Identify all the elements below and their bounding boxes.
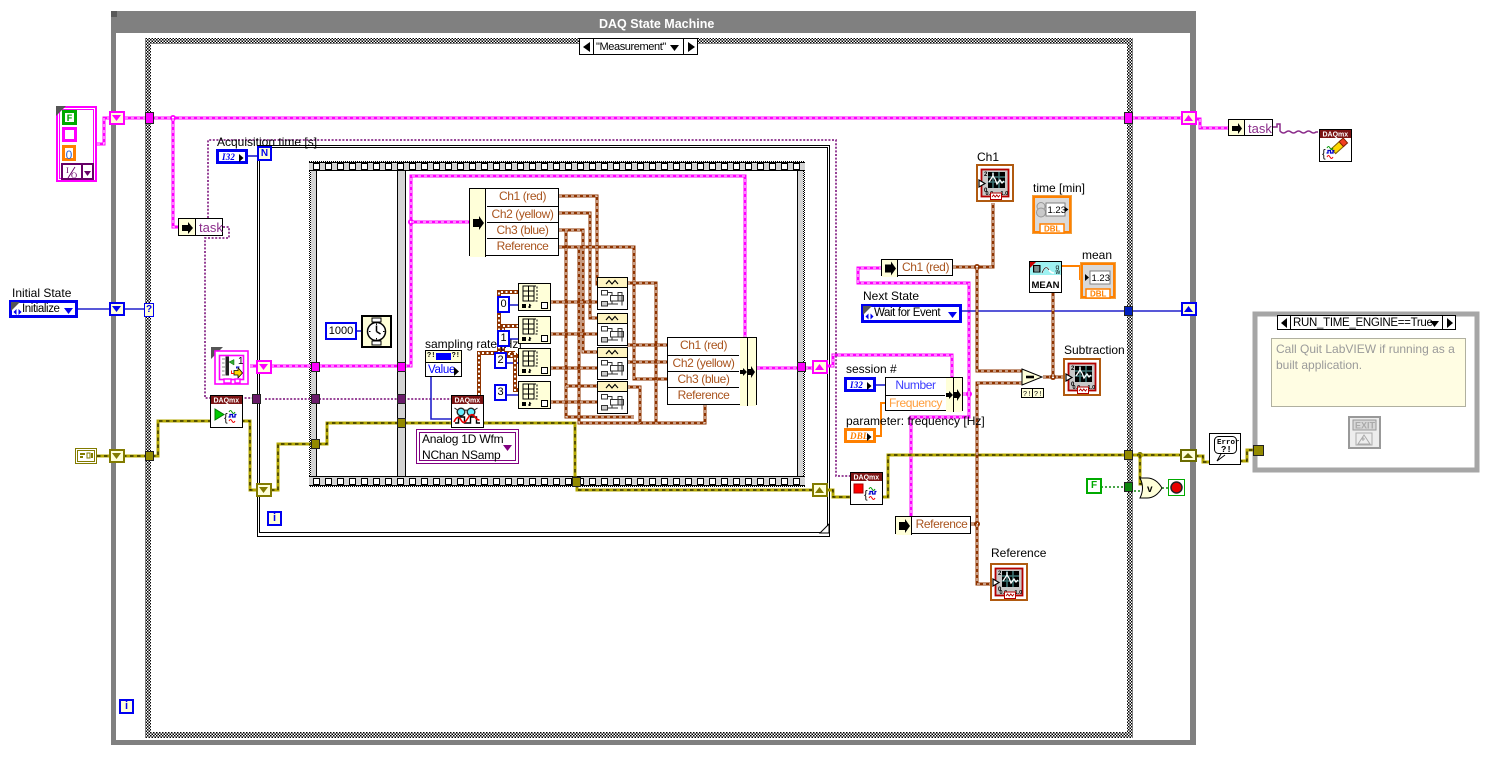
DBL control parameter frequency [844, 428, 876, 443]
svg-text:DAQmx: DAQmx [455, 398, 481, 405]
wire index3 out [550, 367, 599, 370]
unbundle measurement cluster [469, 188, 559, 256]
wire pink to task unbundle outside [1194, 119, 1228, 128]
numeric constant 1 [497, 330, 510, 347]
wire olive below sequence [577, 484, 812, 490]
tunnel pink right [1124, 112, 1133, 124]
wire wdt3 out to bundle row2 [627, 361, 667, 364]
svg-text:1.23: 1.23 [1048, 205, 1067, 216]
wire 2 to index3 [507, 362, 518, 364]
tunnel purple seq-left [311, 394, 320, 404]
wire I32 to N [248, 155, 257, 157]
enum constant Initialize [9, 300, 78, 318]
wire olive read to seq bottom [481, 423, 575, 479]
svg-text:?!: ?! [1221, 445, 1232, 455]
DAQmx Start Task [210, 395, 243, 428]
tunnel pink divider [397, 362, 406, 372]
wire 0 to index1 [510, 304, 518, 306]
for shift register pink right [812, 360, 828, 374]
wire olive to DAQmx start [152, 421, 214, 456]
wire pink case to while right [1132, 117, 1183, 120]
svg-text:?!: ?! [1034, 391, 1042, 399]
unbundle Ch1 red [881, 259, 953, 276]
simple error handler [1209, 433, 1241, 465]
wire task riser to DAQmx stop [208, 140, 853, 476]
flat sequence structure border [309, 161, 805, 487]
wire pink session loop down [911, 394, 969, 517]
svg-text:DAQmx: DAQmx [1323, 132, 1349, 139]
flat sequence frame divider [397, 171, 406, 476]
svg-text:1: 1 [238, 356, 244, 367]
wire property value to read [431, 377, 452, 419]
wire pink bundle out [757, 367, 813, 370]
label sampling rate [425, 338, 522, 351]
wire reference to graph [977, 524, 990, 584]
wire olive for to sequence [271, 444, 313, 490]
wire subVI to for-loop shift register [250, 365, 259, 368]
wire mean icon to indicator [1061, 266, 1084, 279]
junction pink top [170, 115, 176, 121]
shift register right blue [1181, 302, 1197, 316]
label Subtraction [1064, 344, 1125, 357]
junction pink unbundle feed [408, 219, 414, 225]
svg-text:DAQmx: DAQmx [214, 398, 240, 405]
for loop count terminal N [257, 146, 272, 161]
conditional disable selector label [1277, 315, 1456, 330]
numeric constant 2 [494, 352, 507, 369]
svg-text:1.23: 1.23 [1092, 273, 1111, 284]
wire or gate to stop terminal [1162, 487, 1169, 489]
wire next state to case border [962, 310, 1126, 312]
boolean constant F [1086, 478, 1102, 494]
wire unbundle row3 [559, 230, 599, 352]
wire olive to error handler [1195, 456, 1211, 462]
wire array to index4 [515, 353, 518, 390]
wire pink session loop up [858, 268, 969, 394]
wire 1 to index2 [510, 338, 518, 340]
wire subtract out [1043, 376, 1063, 379]
wire array to index2 [503, 326, 518, 353]
label session [846, 363, 897, 376]
waveform graph Ch1 [976, 164, 1014, 202]
wire reference to subtract [977, 383, 1022, 524]
junction brown reference [974, 521, 980, 527]
wire task behind start to for loop [241, 397, 259, 399]
label parameter frequency [846, 415, 985, 428]
MEAN vi [1029, 261, 1062, 293]
wire olive drop to or gate [1140, 455, 1143, 484]
wire session to bundle [876, 384, 885, 386]
wire pink to unbundle [411, 221, 469, 224]
label Acquisition time [217, 136, 317, 149]
svg-text:{: { [864, 489, 868, 501]
wire array to index1 [499, 292, 518, 353]
numeric indicator time min [1032, 195, 1072, 234]
get waveform components 2 [597, 313, 628, 346]
tunnel olive right [1124, 450, 1133, 460]
Wait ms function [361, 315, 392, 348]
wire ch1 to subtract [977, 267, 1022, 371]
wire ch1 unbundle to graph [953, 203, 993, 267]
wire read out riser [479, 353, 515, 395]
label Reference graph [991, 547, 1046, 560]
flat sequence film perforations [314, 164, 320, 170]
wire unbundle row4 [559, 247, 667, 379]
case selector label [579, 38, 698, 55]
svg-text:DAQmx: DAQmx [854, 475, 880, 482]
wire wdt4 feed [566, 230, 634, 417]
while loop iteration terminal i [119, 699, 134, 714]
waveform graph Reference [990, 563, 1028, 601]
svg-text:v: v [1147, 484, 1153, 495]
conditional disable structure RUN_TIME_ENGINE [1255, 314, 1477, 470]
wire wdt4 in stub [566, 385, 599, 388]
comment box [1271, 338, 1466, 407]
tunnel olive divider [397, 418, 406, 428]
wire green to or gate [1130, 490, 1143, 492]
wire task to DAQmx clear [1273, 124, 1318, 133]
label Ch1 [977, 151, 999, 164]
junction pink session bundle out [966, 391, 972, 397]
wire pink drop to task unbundle [173, 118, 178, 227]
label mean [1082, 249, 1112, 262]
wire olive case to while tunnel [1130, 454, 1182, 457]
case selector terminal [144, 303, 154, 317]
tunnel pink seq-left [311, 362, 320, 372]
loop tunnel right olive [1180, 449, 1197, 462]
shift register right pink [1181, 111, 1197, 125]
for loop iteration terminal i [267, 511, 282, 526]
junction brown ch1 [974, 264, 980, 270]
wire F to case border [1101, 486, 1126, 488]
wire index4 out [550, 401, 599, 404]
label Next State [863, 290, 919, 303]
svg-text:?!: ?! [1023, 391, 1031, 399]
numeric constant 3 [494, 384, 507, 401]
bundle display cluster [667, 337, 757, 405]
tunnel purple for-left [252, 394, 261, 404]
wire wdt1 out [627, 283, 656, 423]
tunnel purple divider [397, 394, 406, 404]
index array 2 [518, 316, 551, 344]
bundle by name session [885, 377, 963, 411]
wire reference unbundle out [953, 523, 977, 526]
waveform graph Subtraction [1063, 358, 1101, 396]
I32 control Acquisition time [216, 149, 248, 164]
wire blue case to while border [1131, 310, 1183, 312]
for loop border [258, 146, 830, 537]
wire wdt2 out to bundle row1 [627, 344, 667, 347]
index array 1 [518, 283, 551, 311]
subtract function [1021, 368, 1045, 400]
wire wdt4 out [627, 387, 640, 423]
numeric indicator mean [1080, 262, 1116, 299]
index array 3 [518, 348, 551, 376]
wire olive error handler to structure [1239, 450, 1256, 461]
tunnel olive seq-left [311, 439, 320, 449]
junction brown subtract [1050, 374, 1056, 380]
wire unbundle row1 [559, 196, 599, 284]
EXIT vi icon (disabled) [1348, 416, 1381, 449]
wire 3 to index4 [507, 394, 518, 396]
label Initial State [12, 287, 71, 300]
wire blue to case selector [122, 308, 146, 310]
wire pink for-loop out [825, 355, 952, 378]
polymorphic selector Analog 1D Wfm [416, 429, 519, 464]
wire pink frame1 [271, 365, 398, 368]
DAQmx Clear Task [1319, 129, 1352, 162]
get waveform components 4 [597, 381, 628, 414]
wire olive start to for loop [241, 421, 260, 490]
tunnel pink seq-right [797, 362, 806, 372]
svg-text:w: w [1055, 269, 1061, 276]
wire cluster constant to shift register [97, 118, 111, 144]
I32 control session [844, 377, 876, 392]
label time [min] [1033, 182, 1085, 195]
wire purple frame1 [265, 398, 398, 400]
DAQmx Read [451, 395, 484, 428]
wire index2 out [550, 333, 599, 336]
DAQmx Stop Task [850, 472, 883, 505]
wire subtract to mean [1052, 292, 1055, 377]
for shift register pink left [256, 360, 272, 374]
wire olive frame2 to read [404, 422, 454, 425]
while loop title [599, 18, 714, 32]
property node sampling rate [425, 350, 462, 377]
tunnel pink left [145, 112, 154, 124]
for shift register olive right [812, 483, 828, 497]
numeric constant 0 [497, 296, 510, 313]
tunnel green right [1124, 482, 1133, 492]
svg-text:I: I [66, 165, 69, 175]
wire array to index3 [509, 353, 518, 356]
get waveform components 1 [597, 277, 628, 310]
error cluster constant [75, 448, 97, 464]
wire purple frame2 [404, 398, 454, 400]
while loop frame (DAQ State Machine) [111, 33, 1196, 745]
case structure border [145, 38, 1133, 738]
shift register left blue [109, 302, 125, 316]
stop terminal [1168, 479, 1185, 496]
svg-text:{: { [224, 412, 228, 424]
wire unbundle row2 [559, 213, 599, 318]
cluster constant [56, 106, 97, 182]
index array 4 [518, 381, 551, 409]
or function [1139, 477, 1163, 499]
tunnel olive seq-bottom [572, 477, 581, 487]
wire olive to DAQmx stop [825, 490, 854, 497]
numeric constant 1000 [325, 322, 357, 340]
shift register left olive [109, 449, 125, 463]
get waveform components 3 [597, 347, 628, 380]
enum Next State Wait for Event [861, 304, 962, 323]
wire initial state to shift register [78, 308, 111, 310]
task unbundle outside [1228, 119, 1273, 136]
unbundle Reference [895, 516, 971, 534]
task unbundle element [178, 218, 223, 236]
wire pink main top [125, 117, 1124, 120]
wire olive stop to case edge [880, 455, 1126, 497]
tunnel blue right [1124, 306, 1133, 316]
svg-text:{: { [1322, 148, 1326, 160]
wire olive into case [123, 455, 148, 458]
tunnel olive left [145, 451, 154, 461]
shift register left pink [109, 111, 125, 125]
for shift register olive left [256, 483, 272, 497]
svg-text:DBL: DBL [1090, 290, 1107, 299]
tunnel error into conditional structure [1253, 445, 1264, 456]
svg-text:MEAN: MEAN [1032, 280, 1060, 291]
wire task to DAQmx start [205, 227, 229, 398]
junction olive [1137, 452, 1143, 458]
svg-text:DBL: DBL [1044, 225, 1061, 234]
wire DBL to bundle frequency [875, 403, 885, 436]
wire 1000 to wait [357, 330, 362, 332]
subVI session init [211, 347, 250, 386]
wire index1 out [550, 301, 599, 304]
wire pink frame2 riser [404, 176, 745, 366]
wire olive frame1 [318, 423, 398, 444]
wire reference long bottom [579, 247, 705, 423]
wire error constant to shift register [97, 455, 112, 458]
svg-text:EXIT: EXIT [1355, 421, 1376, 431]
